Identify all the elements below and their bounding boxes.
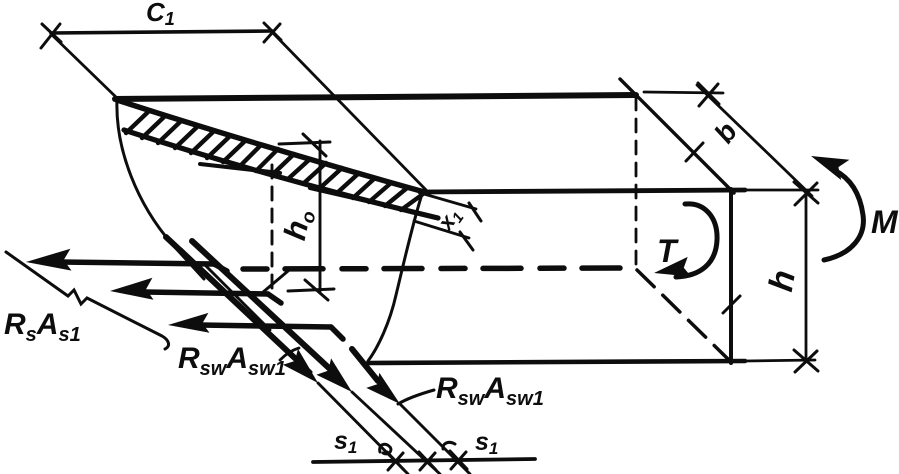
compression zone top boundary: [117, 100, 428, 193]
compression zone inner jog 2: [310, 188, 388, 206]
svg-text:C1: C1: [146, 0, 175, 29]
s1 tick 2: [419, 452, 436, 470]
s1 tick curl 3: [443, 442, 455, 449]
bottom arrowhead: [168, 313, 210, 333]
T arrowhead: [654, 257, 691, 277]
x1 tick lower: [460, 232, 473, 250]
tick on end edge: [686, 143, 703, 161]
s1 tick 3: [450, 451, 467, 469]
h0 top tick slash: [303, 134, 326, 156]
tick mark b top: [698, 83, 719, 106]
hidden bottom end edge: [637, 270, 729, 360]
stirrup arrow D1: [166, 237, 299, 362]
leader right label: [398, 390, 434, 404]
beam back-top edge: [115, 95, 636, 99]
svg-text:RswAsw1: RswAsw1: [436, 372, 544, 410]
compression zone bottom boundary: [124, 130, 438, 218]
svg-text:s1: s1: [475, 428, 498, 458]
svg-text:RsAs1: RsAs1: [4, 308, 81, 346]
extension line left: [51, 34, 118, 99]
front-top extension line: [745, 189, 818, 192]
h0 bottom tick bar: [288, 289, 334, 291]
top arrowhead: [26, 249, 72, 271]
h0 hidden extension: [271, 165, 274, 288]
svg-text:b: b: [708, 116, 743, 148]
T torque arrow: [676, 204, 717, 277]
svg-text:h: h: [762, 267, 803, 294]
bottom extension line: [745, 360, 815, 361]
beam front-bottom edge: [368, 361, 745, 363]
x1 dimension lower edge: [414, 221, 469, 238]
b extension line: [644, 92, 723, 93]
h dimension line: [805, 191, 808, 360]
D1 arrowhead: [283, 349, 318, 383]
D3 arrowhead: [366, 373, 400, 404]
dimension line c1: [51, 31, 272, 33]
top arrow jog: [214, 264, 227, 271]
mid arrowhead: [110, 278, 154, 300]
beam front-right edge: [729, 189, 733, 363]
crack face line mid: [181, 249, 311, 372]
stirrup line s1 c: [400, 404, 470, 474]
x1 tick upper: [469, 203, 481, 221]
tick slash on hidden extension: [262, 271, 288, 293]
M moment arrow: [824, 170, 863, 260]
s1 baseline: [313, 459, 535, 462]
svg-text:M: M: [871, 204, 899, 240]
x1 dimension upper edge: [424, 194, 476, 209]
s1 tick curl 1: [380, 444, 391, 454]
compression zone inner jog: [200, 164, 280, 173]
h0 bottom tick slash: [305, 280, 328, 300]
mid arrow jog: [268, 294, 281, 303]
stirrup line s1 b: [352, 392, 440, 474]
beam front-top edge: [420, 190, 745, 192]
stirrup line s1 a: [318, 383, 408, 474]
svg-text:RswAsw1: RswAsw1: [178, 342, 286, 380]
stirrup arrow D2: [192, 241, 330, 369]
tick mark h top: [794, 182, 818, 205]
leader line Rs As1: [6, 252, 169, 349]
force arrow mid shaft: [145, 292, 268, 294]
bottom arrow jog: [331, 327, 343, 339]
svg-text:ho: ho: [277, 206, 321, 244]
tick mark c1 right: [264, 23, 281, 42]
small leader at left label: [280, 348, 299, 360]
force arrow bottom shaft: [200, 325, 331, 327]
extension line right: [272, 32, 428, 192]
svg-text:s1: s1: [334, 427, 357, 457]
h0 dimension line: [319, 141, 322, 291]
hatching: [126, 112, 423, 210]
D2 arrowhead: [316, 358, 352, 392]
hidden back-right edge: [635, 97, 638, 268]
svg-text:x1: x1: [432, 203, 467, 237]
dimension line b: [697, 85, 812, 196]
thin parallel crack segment: [204, 264, 270, 330]
tick mark h bottom: [794, 350, 818, 372]
s1 tick 1: [387, 452, 404, 470]
M arrowhead: [811, 156, 849, 180]
crack curve right: [368, 194, 422, 361]
tick mark c1 left: [41, 24, 61, 48]
beam right end top edge: [620, 79, 734, 193]
hidden back-bottom edge: [243, 268, 637, 269]
svg-text:T: T: [657, 233, 679, 269]
force arrow Rs As1 top shaft: [60, 262, 214, 264]
crack curve left: [117, 99, 204, 279]
h0 top tick bar: [279, 142, 330, 144]
tick on front-right edge: [723, 296, 740, 313]
stirrup arrow D3: [352, 349, 378, 381]
